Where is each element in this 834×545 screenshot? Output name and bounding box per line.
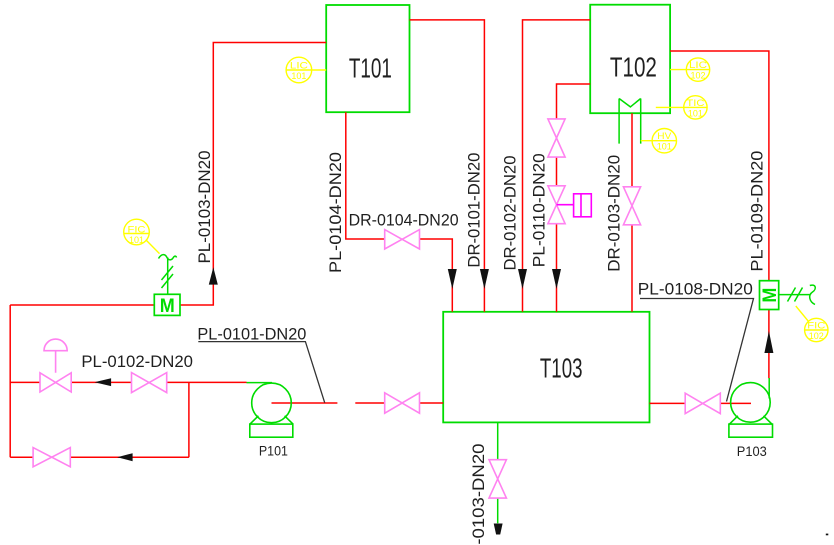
wire DR-0101 (410, 20, 485, 312)
wire DR-0102 (523, 20, 591, 312)
wire PL-0103 run (M-box to T101) (181, 43, 327, 306)
svg-text:PL-0108-DN20: PL-0108-DN20 (638, 281, 753, 299)
svg-text:FIC: FIC (807, 321, 825, 332)
instrument FIC101 (124, 219, 160, 253)
svg-text:PL-0104-DN20: PL-0104-DN20 (327, 152, 345, 273)
wire PL-0104 (346, 112, 453, 312)
wire P103 discharge stub green (768, 378, 770, 399)
svg-text:DR-0103-DN20: DR-0103-DN20 (470, 444, 488, 545)
wire P103 suction (650, 402, 752, 404)
pump P103 (729, 383, 773, 438)
svg-text:P103: P103 (737, 444, 767, 459)
stray mark bottom right (826, 534, 829, 536)
instrument LIC101 (286, 57, 326, 83)
label PL-0108-DN20 with leader (638, 281, 754, 402)
svg-text:HV: HV (657, 131, 672, 142)
valve DR-0103 (623, 187, 640, 225)
tank T102 (590, 5, 670, 114)
label PL-0101-DN20 with leader (197, 326, 324, 403)
valve gate PL-0102 (132, 373, 167, 393)
arrow down DR-0102 (518, 269, 527, 289)
arrow down PL-0110 (552, 269, 561, 289)
arrow down DR-0101 (480, 269, 489, 289)
arrow up PL-0109 (764, 331, 773, 353)
motor box M right (760, 281, 782, 310)
instrument HV101 (641, 129, 677, 153)
valve bypass bottom (33, 448, 70, 467)
svg-text:PL-0103-DN20: PL-0103-DN20 (196, 151, 214, 264)
svg-text:M: M (160, 296, 175, 317)
svg-text:101: 101 (688, 108, 703, 119)
instrument LIC102 (670, 58, 710, 82)
svg-text:M: M (760, 288, 781, 303)
wire T103 drain green (497, 422, 499, 523)
svg-text:DR-0101-DN20: DR-0101-DN20 (466, 153, 484, 268)
valve T103 drain (489, 460, 506, 498)
svg-text:LIC: LIC (290, 61, 308, 72)
signal line right (M to FIC102) (779, 285, 816, 304)
arrow left bypass bottom (117, 453, 132, 461)
signal line left (M to FIC101) (159, 255, 177, 295)
agitator in T102 (619, 99, 641, 144)
wire PL-0110 (557, 84, 591, 312)
tank T101 (326, 5, 409, 112)
svg-text:DR-0102-DN20: DR-0102-DN20 (502, 156, 520, 271)
arrow down drain wedge (494, 524, 503, 535)
arrow left suction line (95, 378, 112, 386)
actuator piston on PL-0110 valve (557, 194, 592, 217)
valve control PL-0102 with dome actuator (40, 339, 71, 392)
svg-text:LIC: LIC (689, 60, 707, 71)
tank T103 (443, 312, 649, 423)
svg-text:101: 101 (657, 142, 672, 153)
svg-text:102: 102 (809, 331, 824, 342)
wire pump suction stub green (247, 382, 273, 384)
wire DR-0103 (631, 113, 633, 312)
valve PL-0110 upper (548, 119, 565, 157)
motor box M left (154, 294, 180, 317)
valve PL-0101 (385, 393, 420, 413)
svg-text:T103: T103 (540, 352, 583, 383)
valve PL-0110 lower (piston actuated) (548, 186, 565, 224)
pump P101 (250, 383, 293, 437)
svg-text:T102: T102 (610, 51, 657, 82)
valve P103 suction (685, 393, 720, 413)
valve DR-0104 (385, 230, 420, 249)
wire left vertical (9, 305, 11, 457)
wire left header horizontal (10, 304, 154, 306)
arrow down DR-0104 (448, 269, 457, 289)
svg-text:TIC: TIC (686, 98, 704, 109)
svg-text:DR-0103-DN20: DR-0103-DN20 (606, 155, 624, 272)
svg-text:T101: T101 (349, 53, 392, 84)
svg-text:PL-0101-DN20: PL-0101-DN20 (197, 326, 306, 344)
wire suction main PL-0102 (10, 381, 246, 383)
svg-text:101: 101 (291, 71, 306, 82)
svg-text:P101: P101 (259, 443, 288, 458)
svg-text:PL-0110-DN20: PL-0110-DN20 (531, 153, 549, 267)
svg-text:DR-0104-DN20: DR-0104-DN20 (349, 211, 459, 229)
svg-text:101: 101 (129, 235, 144, 246)
wire PL-0101 (272, 402, 444, 404)
wire bypass bottom (10, 382, 189, 457)
instrument FIC102 (796, 306, 828, 342)
svg-text:102: 102 (691, 71, 706, 82)
instrument TIC101 (656, 96, 707, 120)
svg-text:PL-0102-DN20: PL-0102-DN20 (81, 353, 193, 371)
wire PL-0109 (670, 51, 769, 378)
svg-text:PL-0109-DN20: PL-0109-DN20 (749, 151, 767, 272)
arrow up PL-0103 (209, 267, 218, 284)
